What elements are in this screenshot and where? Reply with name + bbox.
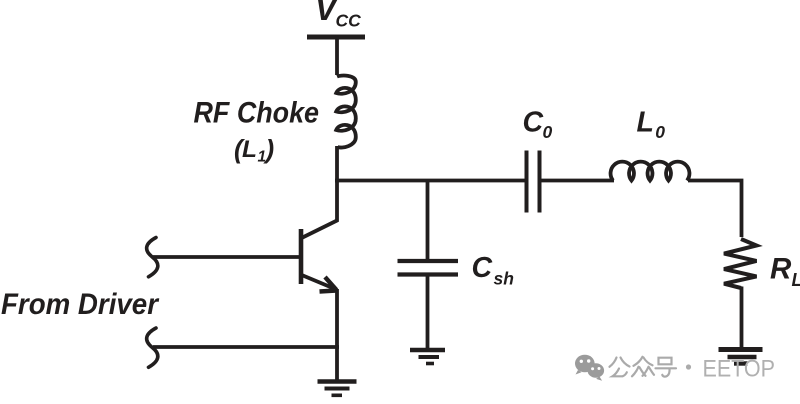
label L0: [637, 107, 666, 143]
wire C0 to L0: [540, 179, 615, 183]
svg-text:C: C: [472, 252, 493, 284]
inductor L0: [611, 162, 690, 181]
break symbol (bottom driver lead): [147, 328, 158, 367]
break symbol (top driver lead): [147, 238, 158, 277]
label RL: [770, 253, 800, 291]
svg-text:From Driver: From Driver: [1, 288, 159, 321]
ground (emitter): [318, 382, 357, 396]
label "(L1)": [234, 134, 274, 166]
wire choke bottom to node: [335, 146, 339, 183]
svg-text:sh: sh: [494, 269, 514, 289]
capacitor C0: [527, 151, 540, 213]
label C0: [523, 107, 553, 143]
svg-text:CC: CC: [336, 11, 362, 31]
transistor Q1: [301, 220, 339, 292]
svg-text:C: C: [523, 107, 544, 139]
power rail VCC bar: [307, 35, 365, 40]
svg-text:L: L: [792, 270, 800, 290]
wire base from break to transistor: [153, 255, 299, 259]
svg-text:L: L: [637, 107, 654, 139]
svg-text:L: L: [242, 136, 257, 163]
label C_sh: [472, 252, 514, 289]
ground (C_sh): [410, 350, 445, 364]
ground (RL): [719, 350, 763, 364]
wire emitter down: [335, 289, 339, 380]
svg-text:EETOP: EETOP: [703, 355, 776, 382]
net label VCC: [315, 0, 361, 31]
svg-text:0: 0: [543, 122, 553, 142]
wire C_sh to ground: [426, 275, 430, 349]
svg-text:0: 0: [655, 122, 665, 142]
watermark middle dot: [686, 364, 691, 369]
wire bottom driver lead: [153, 345, 339, 349]
inductor L1 (RF choke): [336, 76, 356, 148]
watermark wechat icon: [575, 355, 604, 381]
wire resistor to ground: [740, 287, 744, 348]
svg-text:RF Choke: RF Choke: [194, 96, 320, 129]
svg-text:R: R: [770, 253, 792, 286]
wire main rail node to C0: [335, 179, 525, 183]
wire VCC bar to choke top: [335, 37, 339, 75]
wire C_sh branch down: [426, 181, 430, 260]
capacitor C_sh: [398, 261, 459, 275]
wire L0 to corner and down to resistor: [688, 181, 742, 238]
resistor RL: [724, 239, 757, 288]
watermark text 公众号: [610, 357, 677, 377]
wire collector vertical: [335, 181, 339, 222]
